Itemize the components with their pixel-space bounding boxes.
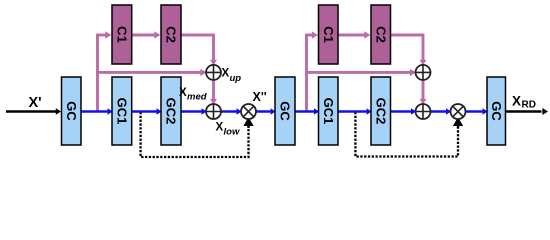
svg-text:X: X xyxy=(216,122,224,134)
wire pink riser block2 xyxy=(305,35,308,112)
wire blue GC2 to adder block1 xyxy=(181,108,207,115)
wire pink skip to upper adder block2 xyxy=(305,69,416,76)
wire blue multiplier1 to GC block2 xyxy=(256,108,276,115)
multiplier block1 xyxy=(241,104,256,119)
wire pink skip to upper adder block1 xyxy=(96,69,206,76)
block GC block1 xyxy=(62,77,82,145)
svg-text:C2: C2 xyxy=(373,26,388,43)
svg-text:GC: GC xyxy=(489,101,504,121)
adder upper block2 xyxy=(416,65,431,80)
svg-text:GC: GC xyxy=(278,101,293,121)
svg-text:X': X' xyxy=(29,95,42,111)
svg-text:GC1: GC1 xyxy=(321,98,336,125)
svg-text:X: X xyxy=(222,68,230,80)
adder upper X_up block1 xyxy=(206,65,221,80)
block C1 block2 xyxy=(319,5,339,64)
wire dotted low-path block1 xyxy=(141,112,252,157)
block C1 block1 xyxy=(112,5,132,64)
wire blue GC1 to GC2 block1 xyxy=(132,108,162,115)
wire blue GC1 to GC2 block2 xyxy=(338,108,372,115)
wire dotted low-path block2 xyxy=(355,112,461,157)
svg-text:RD: RD xyxy=(522,100,536,111)
multiplier block2 xyxy=(451,104,466,119)
wire blue adder to multiplier block1 xyxy=(221,108,242,115)
wire blue GC to GC1 block2 xyxy=(295,108,319,115)
svg-text:GC1: GC1 xyxy=(114,98,129,125)
svg-text:X: X xyxy=(512,94,521,109)
wire blue multiplier2 to final GC xyxy=(466,108,488,115)
adder main block2 xyxy=(416,104,431,119)
wire pink C1 to C2 block2 xyxy=(338,31,370,38)
block GC2 block1 xyxy=(161,77,181,145)
svg-text:GC2: GC2 xyxy=(373,98,388,125)
svg-text:C2: C2 xyxy=(164,26,179,43)
wire blue GC2 to adder block2 xyxy=(391,108,417,115)
block C2 block2 xyxy=(371,5,391,64)
wire pink into C1 block1 xyxy=(96,31,111,38)
svg-text:med: med xyxy=(187,92,207,103)
label X_med xyxy=(179,87,207,103)
svg-text:GC2: GC2 xyxy=(164,98,179,125)
svg-text:C1: C1 xyxy=(321,26,336,43)
wire input arrow xyxy=(6,108,61,115)
wire pink C1 to C2 block1 xyxy=(132,31,161,38)
wire pink into C1 block2 xyxy=(305,31,318,38)
svg-text:GC: GC xyxy=(64,101,79,121)
wire pink upper adder to main adder block1 xyxy=(210,80,217,105)
svg-text:low: low xyxy=(224,127,240,138)
label X_low xyxy=(216,122,240,138)
wire pink C2 to upper adder block2 xyxy=(391,35,427,65)
svg-text:up: up xyxy=(230,73,242,84)
label X_RD xyxy=(512,94,536,111)
block GC final xyxy=(487,77,506,145)
block GC1 block2 xyxy=(319,77,339,145)
wire pink riser block1 xyxy=(96,35,99,112)
svg-text:X: X xyxy=(179,87,187,99)
wire output arrow xyxy=(506,108,549,115)
block GC1 block1 xyxy=(112,77,132,145)
svg-text:C1: C1 xyxy=(114,26,129,43)
wire pink upper adder to main adder block2 xyxy=(420,80,427,105)
block GC block2 xyxy=(275,77,295,145)
wire blue adder to multiplier block2 xyxy=(431,108,452,115)
wire blue GC to GC1 block1 xyxy=(81,108,113,115)
wire pink C2 to upper adder block1 xyxy=(181,35,217,65)
block GC2 block2 xyxy=(371,77,391,145)
label X_up xyxy=(222,68,242,85)
adder main block1 xyxy=(206,104,221,119)
svg-text:X'': X'' xyxy=(253,90,267,104)
block C2 block1 xyxy=(161,5,181,64)
